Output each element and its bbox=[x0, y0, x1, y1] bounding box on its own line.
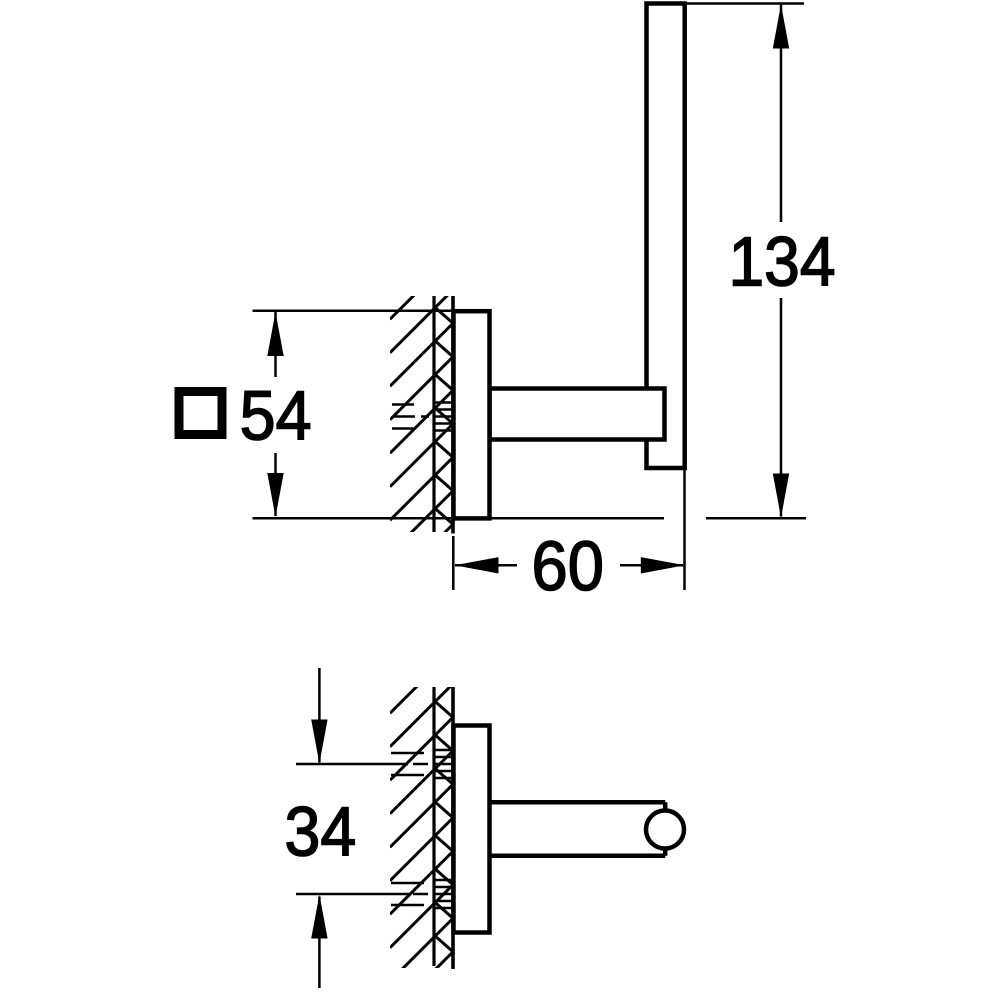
dim 54: upper arrowhead bbox=[267, 312, 283, 356]
svg-text:134: 134 bbox=[729, 223, 836, 301]
hole hidden lines (bottom view, lower hole) bbox=[391, 880, 453, 908]
svg-text:34: 34 bbox=[285, 792, 357, 870]
dim 54: lower arrowhead bbox=[267, 473, 283, 517]
dim 54: dimension line segments bbox=[274, 312, 277, 516]
dim 134: top extension line bbox=[687, 2, 804, 5]
square-section symbol for dim 54 bbox=[179, 392, 222, 435]
wall plate / rosette (top view) bbox=[454, 311, 490, 518]
wall hatch top view bbox=[390, 256, 453, 587]
vertical bar (spare roll holder upright) bbox=[647, 4, 685, 469]
dim 34: dimension line segments bbox=[318, 668, 321, 988]
dim 60: extension lines (wall face / bar face) bbox=[452, 536, 455, 590]
dim 34: upper arrowhead (pointing down) bbox=[311, 720, 327, 764]
horizontal arm (top view) bbox=[490, 389, 665, 440]
wall line left (top view) bbox=[432, 296, 435, 532]
dim 34: centerline/extension lower bbox=[296, 893, 428, 896]
dim 134: upper arrowhead bbox=[773, 5, 789, 49]
dim 134: dimension line segments bbox=[780, 5, 783, 517]
hole hidden lines (top view) bbox=[392, 403, 453, 431]
wall line left (bottom view) bbox=[432, 687, 435, 966]
dim 54: top extension line bbox=[253, 310, 454, 313]
wall hatch bottom view bbox=[390, 650, 453, 1000]
dim 34: centerline/extension upper bbox=[296, 763, 428, 766]
svg-text:54: 54 bbox=[240, 377, 312, 455]
dim 34: lower arrowhead (pointing up) bbox=[311, 895, 327, 939]
dim 60: dimension line segments bbox=[455, 564, 683, 567]
roll pin circle (bottom view) bbox=[646, 811, 684, 849]
dim 60: right arrowhead bbox=[641, 557, 685, 573]
dim 60: left arrowhead bbox=[455, 557, 499, 573]
wall plate / rosette (bottom view) bbox=[454, 726, 490, 933]
dim 54/134: bottom extension line bbox=[253, 517, 665, 520]
wall surface line (top view) bbox=[451, 296, 455, 534]
dim 134: bottom extension (right part) bbox=[706, 517, 806, 520]
arm (bottom view) bbox=[490, 802, 666, 856]
svg-text:60: 60 bbox=[532, 527, 604, 605]
dim 134: lower arrowhead bbox=[773, 474, 789, 518]
wall surface line (bottom view) bbox=[451, 687, 455, 969]
hole hidden lines (bottom view, upper hole) bbox=[391, 750, 453, 778]
